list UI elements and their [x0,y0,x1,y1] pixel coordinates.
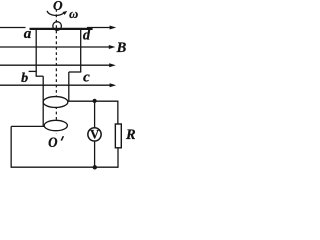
wire: resistor to bottom [117,148,119,168]
slip ring top [43,97,68,108]
coil bottom edge near c [69,71,82,73]
wire: top ring to right branch [68,100,119,102]
svg-text:c: c [83,69,90,85]
wire: bottom ring to left wire [11,125,44,127]
axis OO' (dashed) [55,9,57,134]
resistor R body [115,124,121,148]
left wire vertical [10,126,12,167]
lead wire left (to bottom ring) [42,76,44,126]
coil bottom edge near b [29,70,37,72]
voltmeter V [88,128,101,142]
field line B4 (bottom) [0,83,116,87]
coil lead stub left [36,75,44,77]
lead wire right (to top ring) [68,72,70,101]
field line B1 (top) [0,26,116,30]
wire: voltmeter branch top [94,101,96,128]
svg-text:a: a [24,26,32,42]
svg-text:b: b [21,71,28,86]
wire: right branch down to resistor [117,101,119,124]
field line B3 [0,63,116,67]
coil top edge a-d (thick) [30,28,93,30]
axle circle at top [53,22,62,31]
svg-text:B: B [116,40,127,56]
rotation arrow omega [47,11,67,16]
wire: voltmeter branch bottom [94,141,96,167]
svg-text:V: V [90,128,99,142]
svg-text:O: O [53,0,63,14]
svg-text:ω: ω [69,7,78,21]
junction node top [93,99,97,103]
field line B2 [0,45,115,49]
svg-text:O: O [48,135,58,151]
junction node bottom [93,165,97,169]
coil left edge a-b [35,29,37,76]
svg-text:R: R [125,127,135,143]
coil right edge d-c [80,29,82,73]
slip ring bottom [44,120,67,130]
bottom wire [11,166,118,168]
svg-text:d: d [83,27,91,43]
